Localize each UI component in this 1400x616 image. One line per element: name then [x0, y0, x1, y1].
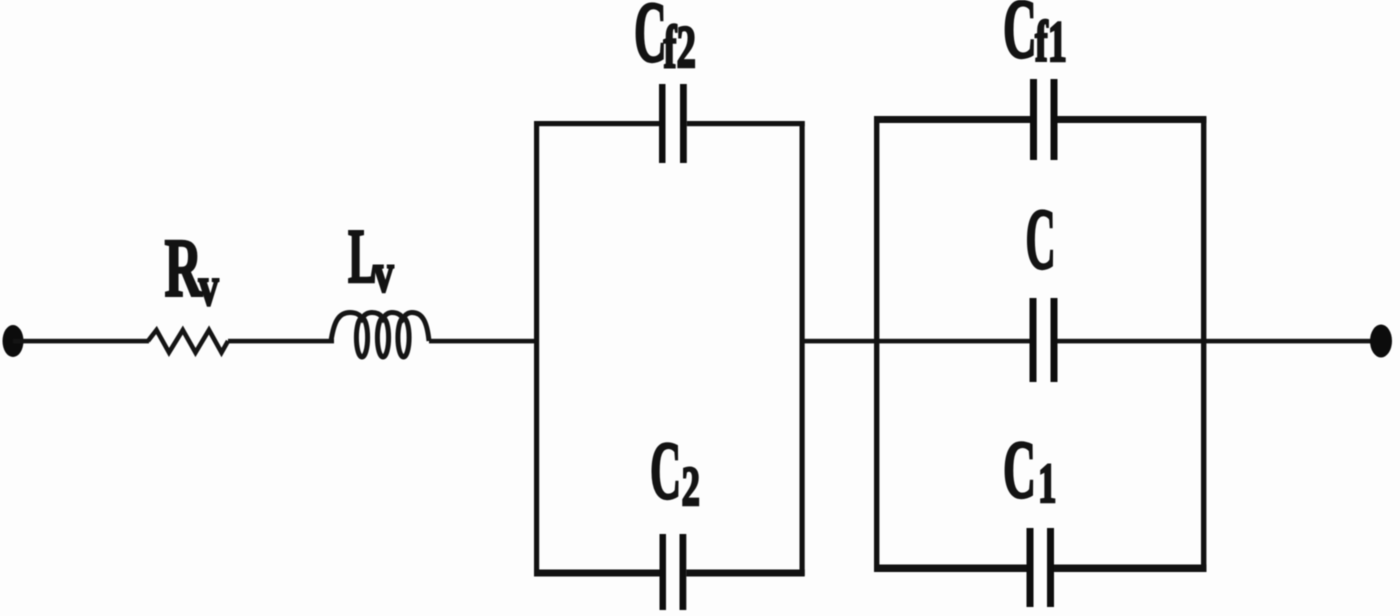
wire: resistor to inductor	[228, 339, 334, 344]
wire: left box left vertical	[534, 121, 539, 576]
capacitor Cf1	[1030, 79, 1058, 160]
svg-text:C: C	[1026, 190, 1056, 287]
capacitor Cf2	[659, 84, 687, 163]
node: left terminal	[3, 325, 24, 357]
label Rv	[165, 223, 220, 318]
label C2	[650, 425, 700, 518]
label Lv	[348, 214, 394, 304]
wire: left terminal to resistor	[13, 339, 149, 344]
node: right terminal	[1370, 325, 1392, 358]
svg-text:v: v	[374, 242, 395, 304]
inductor Lv	[331, 313, 429, 358]
wire: right box top branch right segment	[1058, 116, 1207, 123]
wire: left box top branch left segment	[534, 121, 660, 126]
capacitor C2	[660, 534, 687, 610]
svg-text:C: C	[1003, 0, 1037, 76]
svg-text:f2: f2	[664, 14, 696, 80]
capacitor C	[1030, 298, 1058, 382]
wire: right box top branch left segment	[874, 116, 1030, 123]
wire: left box bottom branch left segment	[534, 570, 660, 577]
svg-text:1: 1	[1038, 454, 1056, 515]
wire: inductor to left box	[429, 339, 539, 344]
wire: right box bottom branch right segment	[1054, 565, 1206, 573]
wire: left box right vertical	[800, 121, 805, 576]
wire: right box left vertical	[874, 117, 879, 572]
svg-text:2: 2	[682, 457, 700, 518]
wire: left box bottom branch right segment	[686, 570, 804, 577]
capacitor C1	[1027, 528, 1055, 607]
wire: middle link between boxes and through right box to right terminal (left part)	[802, 339, 1031, 344]
svg-text:v: v	[199, 256, 220, 318]
label Cf2	[634, 0, 696, 80]
wire: left box top branch right segment	[687, 121, 805, 126]
svg-text:C: C	[634, 0, 667, 80]
svg-text:L: L	[348, 214, 377, 299]
svg-text:f1: f1	[1035, 9, 1067, 74]
wire: right box bottom branch left segment	[874, 565, 1030, 573]
label C1	[1003, 424, 1056, 516]
svg-text:R: R	[165, 223, 204, 316]
wire: right box right vertical	[1201, 117, 1206, 572]
resistor Rv	[148, 330, 228, 353]
wire: capacitor C to right terminal	[1058, 339, 1382, 344]
svg-text:C: C	[1003, 424, 1036, 516]
svg-text:C: C	[650, 425, 681, 517]
label Cf1	[1003, 0, 1067, 76]
